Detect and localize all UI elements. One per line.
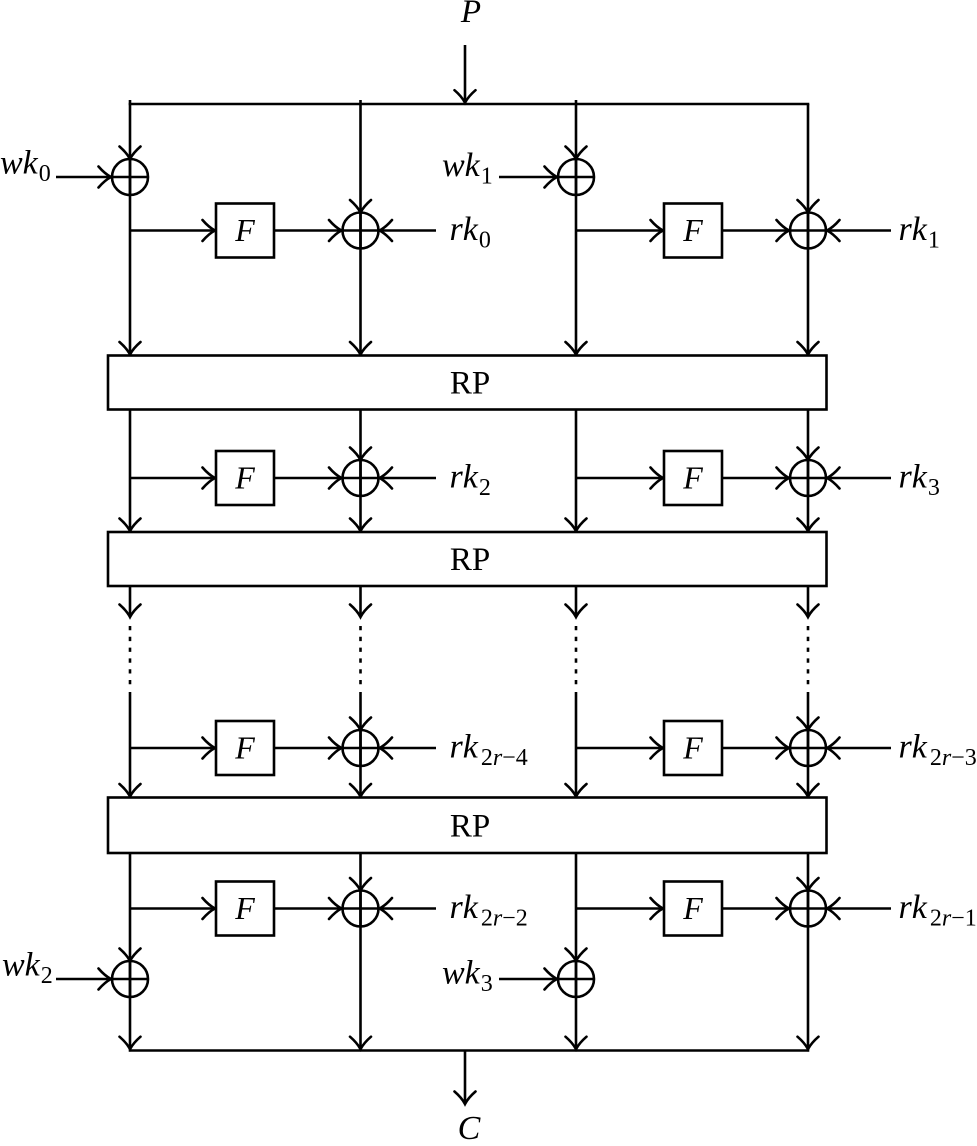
svg-text:F: F: [682, 890, 703, 926]
wire rk2r-1 F input: [576, 898, 663, 919]
F box right row rk1: [664, 204, 722, 258]
wire wk0 arrow: [56, 167, 111, 188]
wire F out to xor (rk1): [722, 220, 789, 241]
wire col3 dangling arrow: [566, 586, 587, 617]
xor rk2r-4: [343, 730, 379, 766]
wire F out to xor (rk0): [274, 220, 342, 241]
wire rk2r-4 F input: [130, 738, 215, 759]
wire F out to xor (rk3): [722, 468, 789, 489]
wire col4 seg c: [798, 692, 819, 797]
xor rk0: [343, 213, 379, 249]
wire col3 seg b: [566, 410, 587, 532]
label rk2r-2: [450, 889, 528, 932]
svg-text:F: F: [234, 890, 255, 926]
svg-text:rk2r−3: rk2r−3: [899, 729, 977, 772]
wire col2 seg d: [350, 853, 371, 1049]
svg-text:F: F: [234, 730, 255, 766]
node C label: [458, 1110, 481, 1146]
wire wk2 arrow: [56, 969, 111, 990]
wire col3 seg a: [566, 100, 587, 355]
wire rk3 F input: [576, 468, 663, 489]
wire col1 dangling arrow: [120, 586, 141, 617]
svg-text:F: F: [234, 212, 255, 248]
wire col1 seg d: [120, 853, 141, 1049]
xor wk2: [112, 961, 148, 997]
wire col2 dangling arrow: [350, 586, 371, 617]
svg-text:F: F: [682, 212, 703, 248]
wire F out to xor (rk2r-4): [274, 738, 342, 759]
svg-text:wk3: wk3: [442, 955, 493, 998]
F box right row rk2r-1: [664, 882, 722, 936]
wire wk1 arrow: [499, 167, 557, 188]
xor rk1: [790, 213, 826, 249]
wire col4 dotted: [807, 626, 810, 687]
wire col4 seg a: [798, 104, 819, 355]
xor wk1: [558, 159, 594, 195]
label rk2r-4: [450, 729, 528, 772]
wire top bus: [129, 103, 810, 106]
wire col3 seg c: [566, 692, 587, 797]
svg-text:P: P: [460, 0, 481, 30]
label rk2r-1: [899, 889, 977, 932]
xor wk3: [558, 961, 594, 997]
wire wk3 arrow: [499, 969, 557, 990]
svg-text:wk1: wk1: [442, 147, 493, 190]
wire col1 seg c: [120, 692, 141, 797]
wire col1 seg b: [120, 410, 141, 532]
wire col4 seg b: [798, 410, 819, 532]
xor rk2r-3: [790, 730, 826, 766]
wire rk2r-1 key arrow: [827, 898, 891, 919]
wire F out to xor (rk2r-2): [274, 898, 342, 919]
wire C output arrow: [455, 1051, 476, 1105]
svg-text:RP: RP: [450, 542, 490, 578]
RP box 3: [108, 798, 827, 854]
svg-text:wk0: wk0: [0, 145, 51, 188]
F box left row rk0: [216, 204, 274, 258]
wire col2 seg c: [350, 692, 371, 797]
RP box 1: [108, 356, 827, 410]
xor rk2r-2: [343, 891, 379, 927]
xor rk3: [790, 460, 826, 496]
svg-text:rk2r−1: rk2r−1: [899, 889, 977, 932]
wire F out to xor (rk2): [274, 468, 342, 489]
node P label: [460, 0, 481, 30]
wire rk2r-2 key arrow: [380, 898, 437, 919]
svg-text:rk1: rk1: [899, 211, 940, 254]
label wk0: [0, 145, 51, 188]
wire rk2 F input: [130, 468, 215, 489]
F box right row rk2r-3: [664, 721, 722, 775]
wire P input arrow: [455, 45, 476, 103]
svg-text:rk2r−2: rk2r−2: [450, 889, 528, 932]
svg-text:RP: RP: [450, 366, 490, 402]
svg-text:F: F: [682, 460, 703, 496]
wire rk2 key arrow: [380, 468, 437, 489]
F box left row rk2r-2: [216, 882, 274, 936]
svg-text:wk2: wk2: [2, 947, 53, 990]
wire rk2r-3 key arrow: [827, 738, 891, 759]
label rk2r-3: [899, 729, 977, 772]
wire rk2r-4 key arrow: [380, 738, 437, 759]
wire bottom bus: [129, 1049, 810, 1052]
F box left row rk2r-4: [216, 721, 274, 775]
label wk2: [2, 947, 53, 990]
wire col1 dotted: [129, 626, 132, 687]
wire rk1 F input: [576, 220, 663, 241]
wire rk2r-2 F input: [130, 898, 215, 919]
label rk3: [899, 459, 940, 502]
wire rk2r-3 F input: [576, 738, 663, 759]
xor rk2r-1: [790, 891, 826, 927]
svg-text:rk3: rk3: [899, 459, 940, 502]
svg-text:rk2: rk2: [450, 459, 491, 502]
F box right row rk3: [664, 451, 722, 505]
wire col2 dotted: [359, 626, 362, 687]
wire rk1 key arrow: [827, 220, 891, 241]
label rk1: [899, 211, 940, 254]
label rk0: [450, 211, 491, 254]
xor wk0: [112, 159, 148, 195]
label wk3: [442, 955, 493, 998]
svg-text:F: F: [682, 730, 703, 766]
xor rk2: [343, 460, 379, 496]
svg-text:rk0: rk0: [450, 211, 491, 254]
label wk1: [442, 147, 493, 190]
wire col2 seg a: [350, 100, 371, 355]
svg-text:RP: RP: [450, 808, 490, 844]
RP box 2: [108, 532, 827, 586]
svg-text:rk2r−4: rk2r−4: [450, 729, 528, 772]
wire col1 seg a: [120, 100, 141, 355]
wire col3 seg d: [566, 853, 587, 1049]
wire rk0 key arrow: [380, 220, 437, 241]
wire F out to xor (rk2r-1): [722, 898, 789, 919]
wire F out to xor (rk2r-3): [722, 738, 789, 759]
svg-text:C: C: [458, 1110, 481, 1141]
label rk2: [450, 459, 491, 502]
wire col2 seg b: [350, 410, 371, 532]
wire col4 seg d: [798, 853, 819, 1049]
wire rk3 key arrow: [827, 468, 891, 489]
wire col4 dangling arrow: [798, 586, 819, 617]
wire col3 dotted: [575, 626, 578, 687]
svg-text:F: F: [234, 460, 255, 496]
F box left row rk2: [216, 451, 274, 505]
wire rk0 F input: [130, 220, 215, 241]
